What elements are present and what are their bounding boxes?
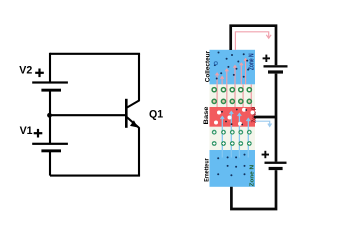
ions: ion circles in base-emitter depletion (2 rows, filled with plus) [212, 130, 252, 146]
ions: donor ion circles in collector-base depletion (2 rows) [212, 88, 251, 104]
label Emetteur [204, 158, 211, 182]
wire: emitter rail from Q1 emitter down to bottom wire [138, 128, 140, 176]
label Base [203, 106, 210, 124]
svg-text:V2: V2 [19, 65, 32, 77]
wire: collector terminal up and over to battery B1 [231, 26, 276, 65]
wire: left rail from top wire down to V2 + plate [49, 53, 51, 82]
zone: collector N region (blue) [210, 50, 256, 85]
zone: emitter N region (blue) [210, 150, 256, 187]
label Zone N (collector) [248, 53, 255, 70]
arrows: pink electron-flow arrows rising into collector [216, 59, 248, 85]
zone: base P region (red) [210, 107, 256, 127]
plus sign for V2 [35, 69, 44, 78]
svg-text:Q1: Q1 [149, 109, 163, 121]
zone: collector-base depletion band [210, 84, 256, 107]
svg-text:Zone N: Zone N [250, 165, 256, 187]
wire: bottom wire from V1 rail to emitter rail [50, 175, 140, 177]
svg-text:Zone N: Zone N [248, 53, 255, 70]
battery V1 [32, 143, 68, 153]
label V1 [20, 125, 33, 137]
wire: rail from B1 down to B2 [275, 74, 278, 162]
battery B1 (collector supply) [264, 65, 288, 73]
svg-text:V1: V1 [20, 125, 33, 137]
wire: from V2 - plate down to junction and V1 + plate [49, 91, 51, 144]
transistor Q1 (NPN) [125, 99, 140, 128]
wire: rail from B2 down and around to emitter terminal [231, 170, 276, 209]
wire: top wire from V2+ rail to collector rail [50, 53, 140, 55]
wire: collector rail from top wire down to Q1 collector [138, 54, 140, 101]
electrons: small dark dots in base zone [221, 109, 247, 126]
svg-text:Base: Base [203, 106, 210, 124]
plus sign for battery B1 [263, 55, 270, 62]
svg-text:Zone P: Zone P [251, 107, 258, 123]
electron with circle marker in collector [214, 62, 217, 65]
label Zone P (base) [251, 107, 258, 123]
electrons: dots in emitter zone [217, 154, 245, 177]
label Q1 [149, 109, 163, 121]
battery B2 (emitter supply) [265, 162, 287, 170]
plus sign for V1 [34, 129, 43, 138]
svg-text:Emetteur: Emetteur [204, 158, 211, 182]
wire: light blue base-current arrow to rail [255, 121, 272, 126]
label Zone N (emitter) [250, 165, 256, 187]
wire: base wire from junction to Q1 base bar [50, 114, 126, 116]
zone: base-emitter depletion band [210, 127, 256, 150]
node: junction dot between V2 and V1 on base wire [47, 113, 52, 118]
wire: red current-direction arrow from collector to B1 [235, 32, 271, 50]
holes: white circles in base zone [214, 108, 255, 126]
plus sign for battery B2 [262, 151, 269, 158]
svg-text:Collecteur: Collecteur [204, 50, 211, 82]
label V2 [19, 65, 32, 77]
arrows: pink stripes through collector-base depletion [217, 84, 251, 107]
battery V2 [32, 81, 68, 91]
arrows: light blue electron arrows from emitter into base [221, 112, 251, 158]
label Collecteur [204, 50, 211, 82]
wire: base terminal to rail [254, 116, 276, 119]
electrons: dots in collector zone [214, 52, 249, 80]
wire: from V1 - plate down to bottom wire [49, 151, 51, 175]
